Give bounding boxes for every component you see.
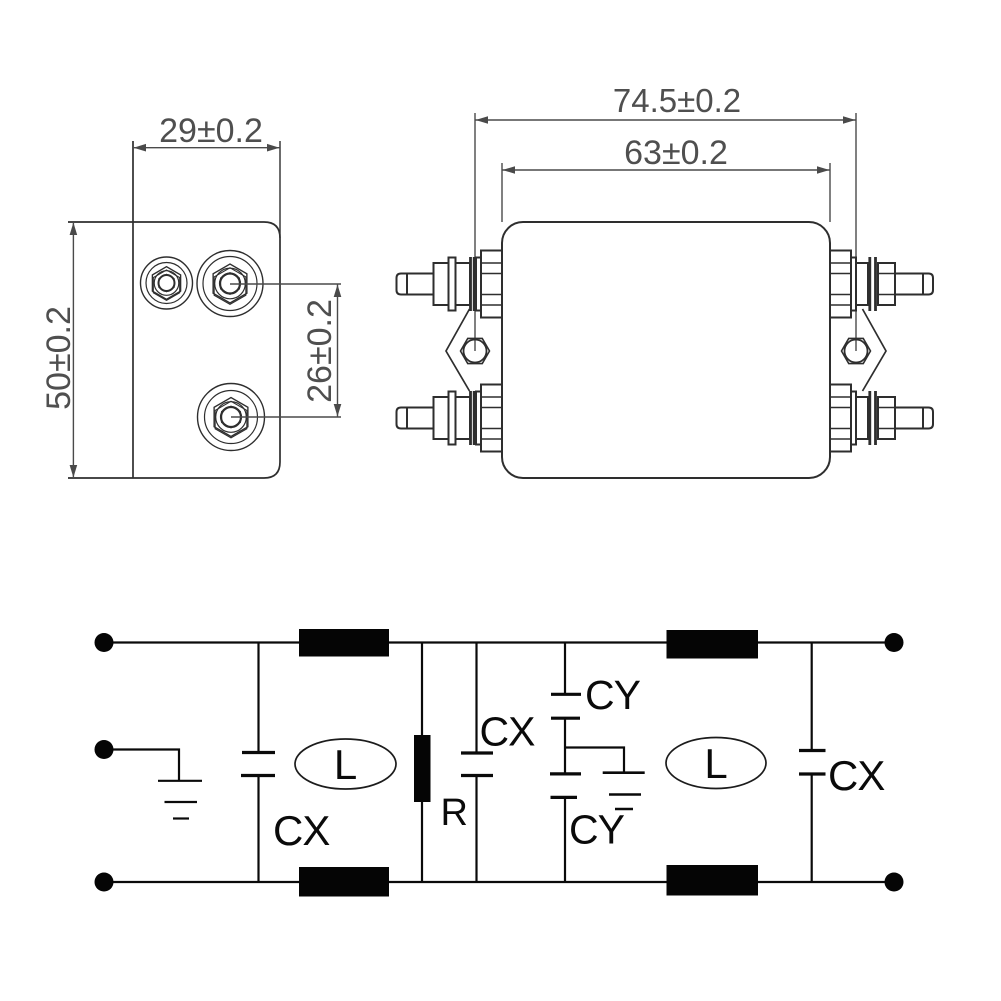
svg-text:L: L bbox=[334, 741, 357, 788]
svg-text:R: R bbox=[441, 792, 468, 834]
svg-text:29±0.2: 29±0.2 bbox=[159, 112, 263, 150]
svg-text:L: L bbox=[704, 740, 727, 787]
svg-text:26±0.2: 26±0.2 bbox=[301, 299, 339, 403]
svg-text:CX: CX bbox=[828, 752, 885, 799]
svg-text:CY: CY bbox=[569, 807, 625, 853]
svg-text:74.5±0.2: 74.5±0.2 bbox=[613, 82, 741, 119]
svg-text:50±0.2: 50±0.2 bbox=[40, 306, 78, 410]
svg-text:63±0.2: 63±0.2 bbox=[624, 134, 728, 172]
svg-text:CX: CX bbox=[480, 709, 536, 755]
svg-text:CX: CX bbox=[273, 807, 330, 854]
svg-text:CY: CY bbox=[585, 672, 641, 718]
